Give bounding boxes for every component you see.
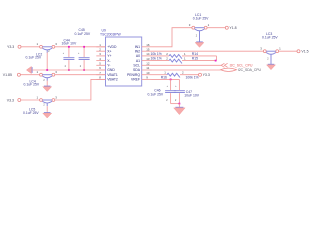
wire C46/C47 bottoms [171,103,180,105]
svg-text:C46: C46 [154,88,160,92]
resistor R16 (PENIRQ pull-up) [152,71,199,80]
junction C47 bottom [179,103,181,105]
svg-text:0.1uF 25V: 0.1uF 25V [24,83,40,87]
wire R14/R15 tie [216,56,218,61]
svg-text:1: 1 [208,23,210,27]
filter LC3 [260,47,281,65]
svg-text:10uF 10V: 10uF 10V [62,42,77,46]
filter LC5 [37,95,58,106]
junction C45 top [83,46,85,48]
svg-text:V1.5: V1.5 [301,50,308,54]
svg-text:2: 2 [166,100,168,102]
svg-text:3: 3 [55,70,57,74]
svg-text:3: 3 [260,47,262,51]
node Y1.8 [225,26,228,29]
svg-text:+VDD: +VDD [107,45,117,49]
node V1.85 (power) [17,73,20,76]
ground under LC4 [44,85,51,87]
svg-text:1: 1 [164,71,166,75]
svg-text:A0: A0 [136,54,140,58]
svg-text:Y3.3: Y3.3 [203,73,210,77]
node I2C_SDA_CPU (off-page connector) [221,68,262,72]
wire SCL [152,64,222,66]
wire SDA [152,69,221,71]
svg-text:I2C_SDA_CPU: I2C_SDA_CPU [238,68,262,72]
filter LC2 [37,42,58,53]
wire LC4 pin2 to ground [46,81,48,86]
junction C44 top [68,46,70,48]
filter LC1 [189,23,210,41]
svg-text:2: 2 [166,57,168,61]
IC left pin numbers [99,43,101,80]
svg-text:11: 11 [146,66,149,70]
svg-text:IN2: IN2 [135,49,140,53]
wire LC5 to VBAT2 [55,79,106,100]
wire V3.3 to LC5 [21,99,40,101]
svg-text:2: 2 [43,104,45,106]
junction C45 bottom [83,69,85,71]
svg-text:SCL: SCL [133,64,140,68]
resistor R15 [151,57,217,64]
svg-text:SDA: SDA [133,68,141,72]
svg-text:2: 2 [65,66,67,68]
svg-text:0.1uF 25V: 0.1uF 25V [75,32,91,36]
svg-text:1: 1 [37,70,39,74]
svg-text:10: 10 [146,71,150,75]
svg-text:V3.3: V3.3 [7,98,14,102]
wire V1.85 to LC4 [20,74,39,76]
ground under LC5 [44,112,51,114]
IC left pin names [107,45,118,82]
svg-text:V1.85: V1.85 [3,73,12,77]
capacitor C45 [75,28,91,70]
svg-text:Y3.3: Y3.3 [7,45,14,49]
svg-text:2: 2 [267,59,269,61]
svg-text:3: 3 [189,23,191,27]
svg-text:2: 2 [196,36,198,38]
junction R15 tie [215,60,217,62]
capacitor C44 [62,38,77,70]
svg-text:16: 16 [146,43,150,47]
svg-text:I2C_SCL_CPU: I2C_SCL_CPU [230,64,253,68]
junction C44 bottom [68,69,70,71]
svg-text:0.1uF 25V: 0.1uF 25V [148,93,164,97]
svg-text:+: + [63,53,65,55]
node V1.5 [297,50,300,53]
svg-text:VBAT2: VBAT2 [107,78,118,82]
ground (left, rotated) [26,66,32,73]
junction VREF/C46 [170,79,172,81]
wire LC5 pin2 to ground [46,106,48,112]
svg-text:14: 14 [146,52,150,56]
svg-text:2: 2 [43,80,45,82]
svg-text:10k 1%: 10k 1% [151,52,162,56]
svg-text:VREF: VREF [131,78,140,82]
svg-text:15: 15 [146,47,150,51]
wire LC2 pin2 down to GND rail [46,52,48,70]
resistor R14 [151,52,217,59]
svg-text:2: 2 [182,71,184,75]
svg-text:3: 3 [55,95,57,99]
svg-text:0.1uF 25V: 0.1uF 25V [193,17,209,21]
svg-text:+: + [175,86,177,88]
svg-text:PENIRQ: PENIRQ [127,73,140,77]
svg-text:TSC2003IPW: TSC2003IPW [100,32,122,36]
svg-text:A1: A1 [136,59,140,63]
IC right pin names [127,45,141,82]
svg-text:IN1: IN1 [135,45,140,49]
wire GND rail [32,69,105,71]
wire to ground [178,104,180,108]
wire LC2 to +VDD [55,46,106,48]
svg-text:Y1.8: Y1.8 [229,26,236,30]
svg-text:2: 2 [80,66,82,68]
IC left pin stubs [96,47,105,80]
svg-text:3: 3 [55,42,57,46]
svg-text:12: 12 [146,62,150,66]
svg-text:GND: GND [107,68,115,72]
svg-text:1: 1 [37,95,39,99]
IC U9 TSC2003IPW [106,37,142,86]
wire IN2 to LC3 [152,50,264,52]
wire LC4 to VBAT1 [55,74,106,76]
svg-text:100k 1%: 100k 1% [186,76,199,80]
wire Y3.3 to LC2 [21,46,40,48]
node Y3.3 (pull-up power) [199,73,202,76]
node Y3.3 (top-left power) [18,45,21,48]
svg-text:2: 2 [48,51,50,53]
junction LC2 stem [46,69,48,71]
svg-text:2: 2 [175,100,177,102]
svg-text:2: 2 [166,52,168,56]
svg-text:1: 1 [37,42,39,46]
wire LC1 to Y1.8 [207,27,225,29]
IC right pin stubs [142,47,152,80]
svg-text:0.1uF 25V: 0.1uF 25V [26,56,42,60]
svg-text:VBAT1: VBAT1 [107,73,118,77]
svg-text:+: + [78,53,80,55]
node I2C_SCL_CPU (off-page connector) [221,63,253,67]
svg-text:Y-: Y- [107,64,110,68]
filter LC4 [37,70,58,81]
svg-text:10k 1%: 10k 1% [151,57,162,61]
ground under LC3 [268,63,275,65]
IC right pin numbers [146,43,150,80]
svg-text:13: 13 [146,57,150,61]
wire LC3 to V1.5 [279,50,297,52]
svg-text:1: 1 [184,52,186,56]
svg-text:X+: X+ [107,49,111,53]
node V3.3 (power) [18,99,21,102]
capacitor C47 [174,79,200,103]
svg-text:0.1uF 25V: 0.1uF 25V [262,36,278,40]
svg-text:X-: X- [107,59,110,63]
ground under C46/C47 [174,107,185,114]
svg-text:+: + [167,86,169,88]
wire VREF [152,78,180,80]
svg-text:10uF 10V: 10uF 10V [184,94,199,98]
svg-text:Y+: Y+ [107,54,111,58]
capacitor C46 [148,79,177,103]
svg-text:0.1uF 25V: 0.1uF 25V [23,111,39,115]
ground under LC1 [196,41,203,43]
svg-text:1: 1 [184,57,186,61]
svg-text:R14: R14 [192,52,198,56]
svg-text:1: 1 [279,47,281,51]
svg-text:R15: R15 [192,57,198,61]
wire IN1 to LC1 [152,28,193,47]
